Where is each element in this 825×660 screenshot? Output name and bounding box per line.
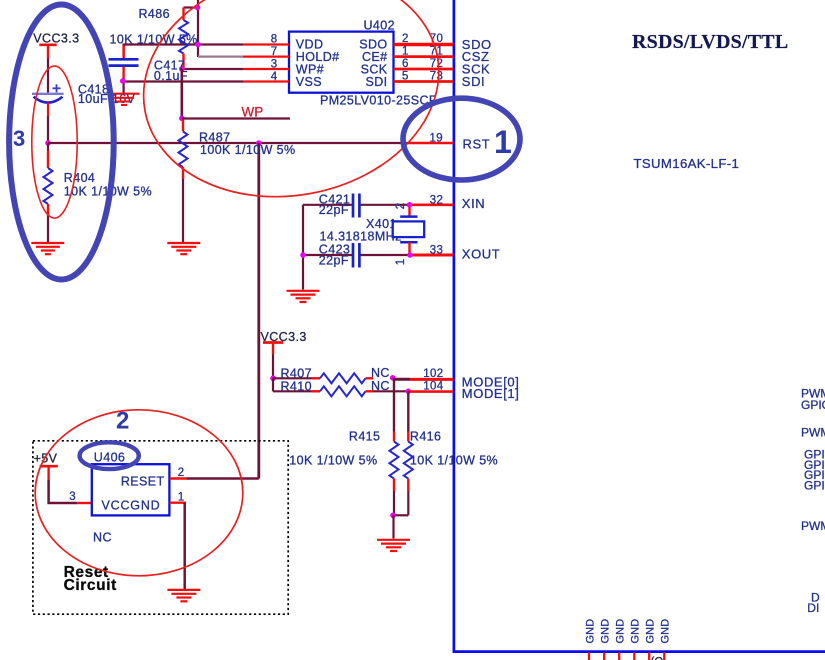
pin number 33 — [430, 245, 443, 257]
U406 ref ellipse — [80, 442, 139, 469]
right edge partial labels — [801, 387, 825, 615]
part number TSUM16AK-LF-1 — [634, 156, 740, 171]
resistor R416 — [393, 430, 498, 516]
net label MODE[0] — [462, 375, 520, 390]
crystal X401 — [320, 205, 425, 255]
svg-text:U406: U406 — [94, 451, 125, 465]
wire VSS row — [123, 80, 243, 82]
svg-text:(O: (O — [651, 657, 664, 660]
net label XOUT — [462, 247, 501, 262]
ground under R404 — [31, 243, 64, 254]
svg-text:SDI: SDI — [365, 75, 387, 89]
label Reset Circuit — [64, 564, 117, 594]
annotation blue ellipse 3 — [9, 5, 114, 280]
svg-text:XIN: XIN — [462, 196, 485, 211]
svg-text:R486: R486 — [139, 7, 170, 21]
wire vertical top net — [197, 0, 199, 57]
svg-text:GND: GND — [599, 619, 611, 644]
ground under U406 — [167, 590, 200, 601]
pin number 19 — [430, 132, 443, 144]
crystal pin number 1 rotated — [395, 259, 407, 266]
capacitor C418 polarized — [32, 84, 64, 141]
svg-text:GND: GND — [660, 619, 672, 644]
wire crystal left vertical — [302, 205, 304, 290]
IC U402 — [289, 19, 437, 108]
svg-text:4: 4 — [271, 71, 278, 83]
svg-text:WP: WP — [242, 105, 264, 120]
label NC U406 — [93, 530, 112, 544]
capacitor C417 — [109, 46, 188, 94]
capacitor C423 — [319, 243, 360, 268]
label C418 — [78, 82, 136, 106]
wire WP vertical — [181, 69, 184, 118]
U402 left pin numbers — [271, 34, 278, 83]
svg-text:VCCGND: VCCGND — [102, 498, 161, 512]
svg-text:3: 3 — [69, 491, 76, 503]
svg-text:100K 1/10W 5%: 100K 1/10W 5% — [200, 143, 296, 157]
svg-text:GND: GND — [614, 619, 626, 644]
wire VDD net — [124, 45, 243, 59]
svg-text:GPIO: GPIO — [804, 478, 825, 492]
title RSDS/LVDS/TTL — [632, 31, 788, 53]
annotation red ellipse top — [124, 0, 458, 221]
svg-text:14.31818MHz: 14.31818MHz — [320, 230, 402, 244]
svg-text:2: 2 — [402, 33, 409, 45]
annotation number 2 — [116, 408, 129, 435]
node junction WP — [179, 116, 185, 122]
capacitor C421 — [319, 193, 360, 218]
wire RST net horizontal — [48, 142, 453, 144]
node junction XIN — [407, 202, 413, 208]
pin 3 stub — [69, 491, 92, 503]
svg-text:8: 8 — [271, 34, 278, 46]
pin number 104 — [423, 381, 443, 393]
node junction VDD — [195, 42, 201, 48]
svg-text:R404: R404 — [64, 171, 95, 185]
power VCC3.3 mode — [261, 330, 307, 378]
wire NC104 to dot — [373, 390, 408, 392]
wire WP# row — [182, 68, 243, 70]
U402 right pin numbers — [402, 33, 409, 82]
node junction C417/VSS — [120, 78, 126, 84]
net labels SDO CSZ SCK SDI — [462, 37, 492, 89]
node junction XOUT — [407, 252, 413, 258]
svg-text:33: 33 — [430, 245, 443, 257]
wire XOUT row — [303, 254, 453, 256]
svg-text:SDI: SDI — [462, 74, 485, 89]
net label XIN — [462, 196, 485, 211]
svg-text:DI: DI — [807, 601, 819, 615]
svg-text:5: 5 — [402, 70, 409, 82]
svg-text:1: 1 — [178, 492, 185, 504]
pin number 32 — [430, 195, 443, 207]
U406 ref text — [94, 451, 125, 465]
resistor R487 — [179, 120, 296, 242]
net label RST — [463, 136, 491, 151]
svg-text:1: 1 — [402, 45, 409, 57]
svg-text:GND: GND — [584, 619, 596, 644]
node junction VCC divider — [45, 140, 51, 146]
U402 right pin stubs — [394, 57, 454, 82]
ground under C417 — [111, 94, 140, 105]
annotation number 1 — [494, 124, 512, 160]
node junction MODE vcc — [270, 376, 276, 382]
resistor R404 — [44, 143, 152, 242]
wire MODE[0] to chip — [393, 378, 453, 381]
svg-text:GND: GND — [630, 619, 642, 644]
svg-text:PWM: PWM — [801, 519, 825, 533]
svg-text:22pF: 22pF — [319, 203, 349, 217]
wire R415 top — [393, 378, 395, 431]
svg-text:3: 3 — [13, 126, 25, 151]
label R486 value — [110, 33, 198, 47]
annotation red ellipse reset — [35, 410, 243, 576]
annotation red ellipse left — [32, 66, 77, 218]
annotation blue ellipse 1 — [403, 98, 520, 180]
pin number 102 — [423, 368, 443, 380]
bottom GND pin labels — [584, 619, 671, 644]
svg-text:RSDS/LVDS/TTL: RSDS/LVDS/TTL — [632, 31, 788, 53]
svg-text:TSUM16AK-LF-1: TSUM16AK-LF-1 — [634, 156, 740, 171]
svg-text:R487: R487 — [199, 130, 230, 144]
svg-text:R407: R407 — [281, 366, 312, 380]
svg-text:7: 7 — [271, 46, 278, 58]
svg-text:1: 1 — [494, 124, 512, 160]
chip boundary U401 TSUM16AK — [454, 0, 825, 652]
svg-text:NC: NC — [93, 530, 112, 544]
node junction NC104 — [406, 389, 412, 395]
net label WP — [242, 105, 264, 120]
power VCC3.3 left — [33, 32, 79, 93]
svg-text:19: 19 — [430, 132, 443, 144]
resistor R415 — [289, 430, 398, 516]
annotation number 3 — [13, 126, 25, 151]
bottom GND pin ticks — [589, 652, 664, 660]
wire reset vertical — [257, 143, 260, 479]
svg-text:XOUT: XOUT — [462, 247, 501, 262]
svg-text:2: 2 — [116, 408, 129, 435]
wire MODE[0] row — [273, 377, 312, 379]
IC U406 — [92, 464, 170, 515]
node junction NC102 — [390, 375, 396, 381]
svg-text:22pF: 22pF — [319, 253, 349, 267]
svg-text:32: 32 — [430, 195, 443, 207]
wire MODE[1] row — [273, 378, 312, 391]
svg-text:RST: RST — [463, 136, 491, 151]
node junction R486 top — [195, 5, 201, 11]
svg-text:2: 2 — [395, 203, 407, 210]
net label MODE[1] — [462, 386, 520, 401]
svg-text:GPIO: GPIO — [801, 398, 825, 412]
wire XIN row — [303, 204, 453, 206]
label NC 102 — [371, 366, 390, 380]
svg-text:RESET: RESET — [121, 475, 165, 489]
svg-text:72: 72 — [430, 58, 443, 70]
resistor R410 — [281, 379, 374, 396]
wire R416 top — [407, 391, 409, 431]
svg-text:102: 102 — [423, 368, 443, 380]
resistor R407 — [281, 366, 374, 383]
svg-text:10K 1/10W 5%: 10K 1/10W 5% — [289, 453, 377, 467]
svg-text:Circuit: Circuit — [64, 577, 117, 594]
bottom partial rotated label — [651, 657, 664, 660]
node junction R415/R416 — [390, 513, 396, 519]
svg-text:104: 104 — [423, 381, 443, 393]
wire R486 top jog — [184, 6, 199, 8]
wire to ground R415 — [392, 515, 394, 538]
node junction WP#/R486 — [179, 66, 185, 72]
pin 2 stub and wire — [169, 467, 258, 479]
crystal pin number 2 rotated — [395, 203, 407, 210]
svg-text:10K 1/10W 5%: 10K 1/10W 5% — [410, 453, 498, 467]
svg-text:1: 1 — [395, 259, 407, 266]
chip pin numbers 70-73 — [430, 33, 443, 82]
svg-text:2: 2 — [178, 467, 185, 479]
ground under R415/R416 — [377, 540, 410, 551]
reset circuit dotted box — [33, 441, 288, 614]
node junction C423 left — [300, 252, 306, 258]
svg-text:MODE[1]: MODE[1] — [462, 386, 520, 401]
svg-text:VSS: VSS — [296, 75, 322, 89]
ground under R487 — [167, 243, 200, 254]
U402 right pin stub SDO — [394, 43, 454, 46]
svg-text:3: 3 — [271, 58, 278, 70]
U402 left pin stubs — [243, 45, 289, 82]
svg-text:R416: R416 — [410, 430, 441, 444]
svg-text:+5V: +5V — [34, 451, 58, 465]
svg-text:73: 73 — [430, 70, 443, 82]
power +5V — [34, 451, 58, 480]
node junction RST/reset — [256, 140, 262, 146]
svg-text:R410: R410 — [281, 379, 312, 393]
svg-text:10K 1/10W 5%: 10K 1/10W 5% — [110, 33, 198, 47]
wire HOLD# (gray) — [198, 55, 243, 57]
ground under crystal caps — [287, 291, 320, 302]
resistor R486 — [139, 7, 189, 69]
wire +5V to pin3 — [49, 480, 78, 503]
svg-text:6: 6 — [402, 58, 409, 70]
label NC 104 — [371, 379, 390, 393]
pin 1 stub and wire — [169, 492, 186, 589]
svg-text:NC: NC — [371, 366, 390, 380]
svg-text:R415: R415 — [349, 430, 380, 444]
wire WP stub — [182, 117, 290, 119]
svg-text:PWM: PWM — [801, 426, 825, 440]
wire MODE[1] to chip — [408, 390, 453, 393]
svg-text:GND: GND — [644, 619, 656, 644]
svg-text:PM25LV010-25SCF: PM25LV010-25SCF — [320, 94, 437, 108]
